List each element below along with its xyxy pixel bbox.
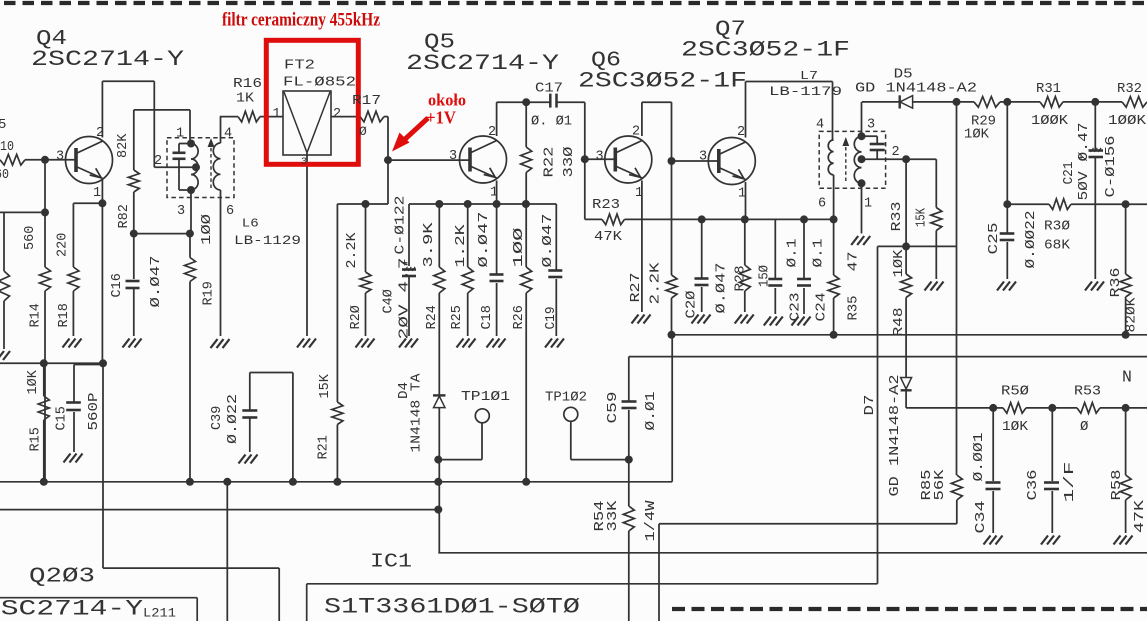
- svg-text:N: N: [1122, 368, 1132, 387]
- svg-text:3: 3: [56, 150, 64, 165]
- svg-text:6: 6: [818, 197, 826, 212]
- svg-text:15Ø: 15Ø: [758, 265, 773, 287]
- svg-text:2.2K: 2.2K: [649, 261, 664, 304]
- svg-text:C16: C16: [110, 273, 125, 297]
- svg-text:4: 4: [224, 127, 232, 142]
- svg-text:C15: C15: [55, 406, 70, 430]
- svg-text:2: 2: [333, 107, 341, 122]
- svg-text:R35: R35: [847, 296, 862, 321]
- svg-text:2: 2: [892, 145, 900, 160]
- svg-text:R21: R21: [317, 435, 332, 459]
- svg-text:3: 3: [301, 157, 307, 168]
- svg-text:3: 3: [867, 118, 875, 133]
- svg-text:2SC2714-Y: 2SC2714-Y: [406, 50, 560, 76]
- svg-text:56K: 56K: [933, 468, 948, 500]
- svg-text:1: 1: [273, 107, 281, 122]
- svg-text:Ø.Ø47: Ø.Ø47: [715, 263, 730, 314]
- svg-text:GD 1N4148-A2: GD 1N4148-A2: [855, 81, 977, 97]
- svg-text:1ØK: 1ØK: [1002, 419, 1029, 435]
- svg-text:C36: C36: [1026, 470, 1041, 501]
- svg-text:Ø: Ø: [1080, 419, 1088, 435]
- svg-text:GD 1N4148-A2: GD 1N4148-A2: [888, 375, 903, 497]
- svg-text:R36: R36: [1109, 268, 1124, 298]
- svg-text:1ØK: 1ØK: [964, 127, 990, 143]
- svg-text:Ø.Ø47: Ø.Ø47: [149, 256, 164, 308]
- svg-text:6: 6: [226, 204, 234, 219]
- svg-text:3.9K: 3.9K: [422, 221, 437, 267]
- svg-text:C24: C24: [815, 293, 830, 322]
- svg-text:2: 2: [488, 125, 496, 140]
- svg-text:L7: L7: [800, 69, 818, 83]
- svg-text:Ø.1: Ø.1: [812, 239, 827, 268]
- svg-text:C23: C23: [789, 293, 804, 322]
- svg-text:Ø.Ø47: Ø.Ø47: [477, 212, 492, 268]
- svg-text:R5Ø: R5Ø: [1001, 384, 1029, 400]
- svg-text:1.2K: 1.2K: [454, 223, 469, 267]
- svg-text:Q2Ø3: Q2Ø3: [29, 566, 95, 589]
- svg-text:R17: R17: [352, 93, 381, 109]
- svg-text:L211: L211: [143, 607, 176, 621]
- svg-text:82ØK: 82ØK: [1125, 297, 1140, 333]
- svg-text:C2Ø: C2Ø: [685, 291, 700, 319]
- svg-text:5: 5: [0, 117, 6, 133]
- svg-text:47K: 47K: [594, 229, 623, 245]
- svg-text:R2Ø: R2Ø: [349, 305, 364, 329]
- svg-text:3: 3: [177, 204, 185, 219]
- svg-text:R15: R15: [29, 427, 44, 451]
- svg-text:2: 2: [154, 154, 162, 169]
- svg-text:Ø.Ø47: Ø.Ø47: [541, 214, 556, 268]
- svg-text:1ØØ: 1ØØ: [512, 228, 527, 268]
- svg-text:R14: R14: [29, 303, 44, 327]
- svg-text:C21: C21: [1062, 162, 1077, 185]
- svg-text:R82: R82: [117, 204, 132, 228]
- svg-text:1: 1: [93, 186, 101, 201]
- svg-text:C18: C18: [480, 305, 495, 329]
- svg-text:1: 1: [864, 197, 872, 212]
- svg-text:Ø: Ø: [359, 124, 367, 139]
- svg-text:33K: 33K: [606, 499, 621, 531]
- svg-text:1: 1: [635, 186, 643, 201]
- svg-text:R48: R48: [892, 308, 907, 337]
- svg-text:C39: C39: [210, 406, 225, 430]
- svg-text:2ØV 4.7: 2ØV 4.7: [398, 258, 413, 340]
- svg-text:1: 1: [176, 127, 184, 142]
- svg-text:15K: 15K: [915, 207, 930, 227]
- svg-text:2: 2: [632, 125, 640, 140]
- svg-text:2SC2714-Y: 2SC2714-Y: [31, 46, 185, 72]
- svg-text:R25: R25: [450, 305, 465, 329]
- svg-text:filtr ceramiczny 455kHz: filtr ceramiczny 455kHz: [222, 11, 380, 31]
- svg-text:IC1: IC1: [370, 551, 412, 573]
- svg-text:R32: R32: [1117, 81, 1142, 97]
- svg-text:3: 3: [596, 150, 604, 165]
- svg-text:C4Ø: C4Ø: [382, 289, 397, 313]
- svg-text:R53: R53: [1074, 384, 1101, 400]
- svg-text:C-Ø122: C-Ø122: [394, 196, 409, 255]
- svg-text:L6: L6: [242, 217, 259, 231]
- svg-text:C59: C59: [606, 392, 621, 424]
- svg-text:Ø.ØØ1: Ø.ØØ1: [972, 433, 987, 482]
- svg-text:1ØØK: 1ØØK: [1031, 113, 1069, 129]
- svg-text:R31: R31: [1036, 81, 1061, 97]
- svg-text:1ØØ: 1ØØ: [200, 214, 215, 245]
- svg-text:1/4W: 1/4W: [644, 499, 659, 541]
- svg-text:R58: R58: [1110, 470, 1125, 501]
- svg-text:3: 3: [699, 150, 707, 165]
- svg-text:47: 47: [847, 252, 862, 272]
- svg-text:R22: R22: [543, 147, 558, 178]
- svg-text:1ØK: 1ØK: [892, 248, 907, 277]
- svg-text:Ø.1: Ø.1: [786, 239, 801, 268]
- svg-text:560P: 560P: [87, 393, 102, 431]
- svg-text:2: 2: [96, 126, 104, 141]
- svg-text:R18: R18: [57, 303, 72, 327]
- svg-text:R26: R26: [512, 305, 527, 329]
- svg-text:Ø.Ø1: Ø.Ø1: [644, 392, 659, 431]
- svg-text:82K: 82K: [116, 133, 131, 158]
- svg-text:C34: C34: [974, 501, 989, 534]
- svg-text:1/F: 1/F: [1063, 462, 1078, 503]
- svg-text:R28: R28: [734, 266, 749, 292]
- svg-text:C17: C17: [535, 81, 563, 97]
- svg-text:+1V: +1V: [426, 108, 456, 128]
- svg-text:15K: 15K: [318, 373, 333, 398]
- svg-text:D7: D7: [863, 395, 878, 416]
- svg-text:3: 3: [449, 149, 457, 164]
- svg-text:FT2: FT2: [284, 58, 315, 74]
- svg-text:TP1Ø2: TP1Ø2: [545, 391, 587, 406]
- svg-text:TP1Ø1: TP1Ø1: [461, 390, 510, 405]
- svg-text:1: 1: [490, 186, 498, 201]
- svg-text:5ØV Ø.47: 5ØV Ø.47: [1077, 123, 1092, 201]
- svg-text:C-Ø156: C-Ø156: [1104, 136, 1119, 198]
- svg-text:FL-Ø852: FL-Ø852: [283, 75, 356, 91]
- svg-text:33Ø: 33Ø: [562, 147, 577, 178]
- svg-text:47K: 47K: [1133, 499, 1147, 533]
- svg-text:1ØK: 1ØK: [26, 369, 41, 394]
- svg-text:R33: R33: [890, 202, 905, 232]
- svg-text:R23: R23: [592, 197, 620, 213]
- svg-text:1ØØK: 1ØØK: [1108, 113, 1147, 129]
- svg-text:Ø.Ø22: Ø.Ø22: [226, 394, 241, 444]
- svg-text:2.2K: 2.2K: [345, 232, 360, 269]
- svg-text:C25: C25: [987, 223, 1002, 255]
- svg-text:1K: 1K: [236, 91, 255, 107]
- svg-text:2SC3Ø52-1F: 2SC3Ø52-1F: [578, 68, 747, 94]
- svg-text:R19: R19: [202, 281, 217, 305]
- svg-text:220: 220: [56, 233, 71, 257]
- svg-text:2SC2714-Y: 2SC2714-Y: [0, 596, 144, 621]
- svg-text:60: 60: [0, 167, 9, 183]
- svg-text:Ø.ØØ22: Ø.ØØ22: [1024, 211, 1039, 269]
- svg-text:2: 2: [737, 125, 745, 140]
- svg-text:LB-1179: LB-1179: [769, 85, 842, 99]
- svg-text:1: 1: [738, 187, 746, 202]
- svg-text:4: 4: [816, 118, 824, 133]
- svg-text:210: 210: [0, 139, 14, 155]
- svg-text:S1T3361DØ1-SØTØ: S1T3361DØ1-SØTØ: [324, 594, 580, 620]
- svg-text:2SC3Ø52-1F: 2SC3Ø52-1F: [681, 37, 850, 63]
- svg-text:R27: R27: [629, 273, 644, 303]
- svg-text:1N4148 TA: 1N4148 TA: [410, 373, 425, 453]
- svg-text:68K: 68K: [1044, 238, 1071, 254]
- svg-text:R3Ø: R3Ø: [1044, 219, 1070, 235]
- svg-text:Ø. Ø1: Ø. Ø1: [531, 114, 572, 130]
- svg-text:C19: C19: [544, 307, 559, 330]
- svg-text:R24: R24: [425, 305, 440, 329]
- svg-text:LB-1129: LB-1129: [234, 234, 301, 248]
- svg-text:560: 560: [23, 226, 38, 250]
